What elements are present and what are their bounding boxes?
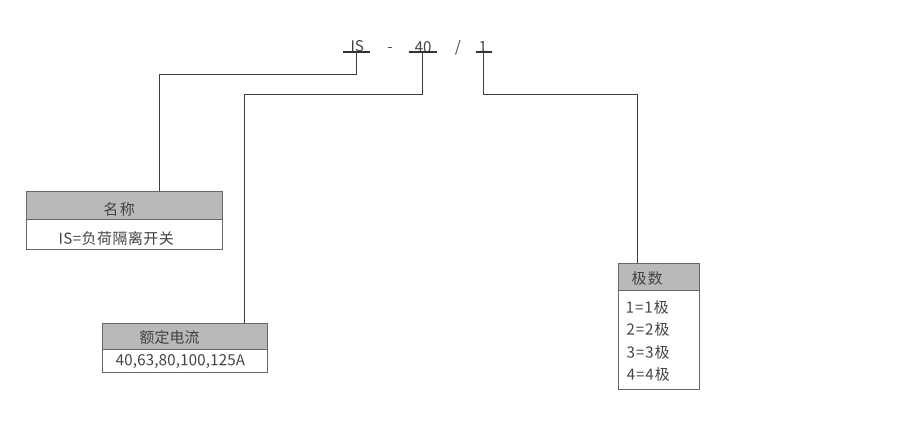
wire 1 to poles box vertical [637, 94, 638, 263]
underline under IS [343, 51, 370, 53]
wire 40 drop vertical [422, 53, 423, 95]
label slash [453, 38, 462, 57]
box name (名称) [26, 191, 223, 250]
label IS=负荷隔离开关 [58, 229, 175, 247]
label 1=1极 [625, 298, 670, 316]
underline under 40 [409, 51, 437, 53]
label 3=3极 [625, 343, 671, 361]
label 名称 [102, 200, 136, 218]
label 极数 [630, 269, 664, 287]
box poles (极数) [618, 263, 700, 390]
label 1 [478, 39, 488, 54]
wire 40 horizontal [244, 94, 423, 95]
label 40,63,80,100,125A [114, 352, 247, 370]
label IS [350, 38, 365, 53]
wire IS drop vertical [356, 53, 357, 75]
label hyphen [386, 45, 394, 50]
wire 1 horizontal [483, 94, 638, 95]
wire IS to name box vertical [159, 74, 160, 192]
wire 40 to current box vertical [244, 94, 245, 323]
label 2=2极 [625, 320, 671, 338]
underline under 1 [476, 51, 492, 53]
wire 1 drop vertical [483, 53, 484, 95]
label 40 [413, 39, 433, 54]
wire IS horizontal [159, 74, 357, 75]
label 额定电流 [138, 328, 201, 346]
label 4=4极 [625, 365, 671, 383]
box rated current (额定电流) [102, 323, 268, 373]
